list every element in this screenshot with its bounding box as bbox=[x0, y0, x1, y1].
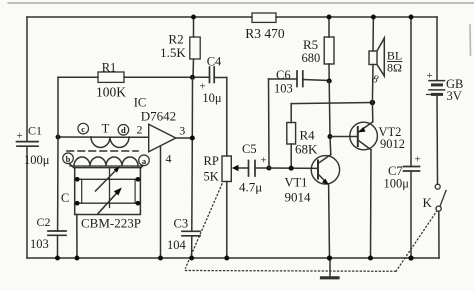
transistor VT2 bbox=[350, 122, 378, 150]
capacitor C2 bbox=[48, 230, 66, 232]
varcap arrow 1 bbox=[96, 169, 118, 192]
node junction BL/VT2 emitter bbox=[370, 100, 376, 106]
node junction BL top bbox=[371, 15, 376, 20]
svg-text:+: + bbox=[17, 130, 23, 142]
node junction output (R1/R2/C4) bbox=[190, 75, 195, 80]
svg-text:9014: 9014 bbox=[285, 190, 312, 205]
wire R5 junction down to VT2 base junction and VT1 collector bbox=[329, 81, 331, 155]
node junction R2 top rail bbox=[191, 15, 196, 20]
svg-text:VT1: VT1 bbox=[285, 176, 308, 190]
svg-text:+: + bbox=[261, 155, 267, 167]
varcap inner right edge bbox=[134, 179, 136, 203]
capacitor C5 bbox=[248, 161, 250, 177]
svg-text:K: K bbox=[423, 195, 433, 210]
svg-text:c: c bbox=[81, 124, 85, 134]
svg-text:104: 104 bbox=[167, 238, 187, 252]
resistor R4 bbox=[287, 123, 296, 145]
svg-text:a: a bbox=[142, 156, 147, 166]
svg-text:CBM-223P: CBM-223P bbox=[81, 216, 141, 231]
node junction VT2 base bbox=[327, 134, 332, 139]
svg-text:+: + bbox=[415, 154, 421, 166]
resistor R2 bbox=[193, 17, 195, 37]
terminal a bbox=[139, 155, 150, 166]
svg-text:C1: C1 bbox=[28, 124, 42, 138]
transformer T secondary winding bbox=[70, 165, 142, 167]
varcap stator line upper bbox=[75, 178, 141, 180]
wire R4 top to BL/VT2 emitter bbox=[291, 103, 372, 104]
svg-text:RP: RP bbox=[204, 154, 219, 168]
svg-text:100μ: 100μ bbox=[24, 153, 50, 167]
svg-text:3: 3 bbox=[179, 124, 185, 138]
svg-text:C3: C3 bbox=[174, 217, 189, 231]
svg-text:680: 680 bbox=[302, 51, 321, 65]
svg-text:10μ: 10μ bbox=[202, 91, 222, 105]
capacitor C4 bbox=[195, 76, 210, 78]
svg-text:100μ: 100μ bbox=[384, 177, 410, 191]
svg-text:C2: C2 bbox=[37, 215, 51, 229]
svg-text:3V: 3V bbox=[447, 89, 462, 103]
wire x58 column (R1 left down through C2) bbox=[57, 77, 59, 231]
svg-text:1.5K: 1.5K bbox=[160, 45, 186, 60]
svg-text:C6: C6 bbox=[276, 68, 291, 82]
wire C5 junction to VT1 base bbox=[269, 167, 318, 169]
wiper arrow RP bbox=[236, 167, 249, 169]
capacitor C7 bbox=[410, 17, 412, 167]
svg-text:C: C bbox=[61, 191, 69, 205]
terminal d bbox=[118, 125, 129, 136]
wire bottom rail bbox=[27, 257, 439, 259]
transformer T primary winding bbox=[91, 137, 129, 148]
mechanical link dotted RP to K bbox=[186, 184, 223, 268]
varcap arrow 2 bbox=[98, 191, 119, 214]
ground bbox=[329, 258, 331, 277]
wire output column (junction to pin3 to C3) bbox=[191, 77, 194, 231]
transformer T primary wire bbox=[58, 136, 149, 138]
resistor R1 bbox=[58, 76, 98, 78]
speaker BL bbox=[372, 17, 374, 51]
potentiometer RP bbox=[222, 156, 231, 182]
varcap rotor center line bbox=[109, 168, 111, 208]
op-amp U1 triangle bbox=[149, 124, 176, 151]
node junction R5 top bbox=[327, 15, 332, 20]
capacitor C6 bbox=[269, 78, 298, 80]
node bottom rail junctions bbox=[55, 256, 60, 261]
scan edge tick right bbox=[469, 25, 472, 55]
variable capacitor C (CBM-223P) box bbox=[75, 168, 141, 215]
wire left rail (top rail to C1) bbox=[26, 17, 28, 141]
svg-text:4.7μ: 4.7μ bbox=[239, 180, 262, 195]
wire box to bottom rail bbox=[76, 215, 78, 259]
node junction C5/C6 bbox=[266, 165, 271, 170]
terminal c bbox=[78, 123, 89, 134]
wire C4 to RP bbox=[226, 78, 228, 157]
node junction R4 bottom bbox=[289, 166, 294, 171]
wire b to tuning box bbox=[69, 164, 75, 169]
wire a to tuning box bbox=[140, 166, 143, 169]
svg-text:b: b bbox=[66, 154, 71, 164]
svg-text:100K: 100K bbox=[96, 85, 126, 100]
capacitor C1 bbox=[17, 141, 39, 143]
svg-text:R4: R4 bbox=[300, 128, 316, 143]
node junction primary left bbox=[56, 135, 61, 140]
wire top rail left of R3 bbox=[27, 16, 252, 18]
svg-text:2: 2 bbox=[137, 123, 143, 137]
svg-text:R3 470: R3 470 bbox=[245, 26, 285, 41]
svg-text:8Ω: 8Ω bbox=[387, 61, 402, 75]
capacitor C3 bbox=[182, 230, 200, 232]
node junction R5/C6 bbox=[327, 78, 332, 83]
node pin3 junction bbox=[190, 135, 195, 140]
svg-text:C4: C4 bbox=[207, 55, 222, 69]
wire top rail right of R3 bbox=[276, 16, 437, 18]
scan edge line top bbox=[8, 2, 474, 4]
svg-text:R5: R5 bbox=[303, 37, 318, 52]
svg-text:5K: 5K bbox=[204, 170, 219, 184]
svg-text:103: 103 bbox=[30, 237, 49, 251]
svg-text:103: 103 bbox=[274, 82, 293, 96]
svg-text:d: d bbox=[121, 125, 126, 135]
resistor R5 bbox=[328, 17, 330, 37]
varcap inner left edge bbox=[81, 179, 83, 203]
wire pin3 output bbox=[176, 137, 193, 139]
battery GB bbox=[436, 17, 438, 80]
varcap stator line lower bbox=[75, 202, 141, 204]
terminal b bbox=[63, 153, 74, 164]
ferrite core dashed bbox=[67, 150, 138, 152]
wire C5 junction up to C6 bbox=[268, 79, 271, 168]
transistor VT1 bbox=[311, 156, 339, 184]
svg-text:C5: C5 bbox=[242, 142, 257, 156]
svg-text:68K: 68K bbox=[295, 142, 318, 157]
switch K bbox=[435, 184, 440, 189]
svg-text:IC: IC bbox=[134, 96, 147, 110]
svg-text:4: 4 bbox=[166, 152, 172, 166]
svg-text:9012: 9012 bbox=[380, 137, 405, 151]
wire VT2 base bbox=[330, 136, 358, 138]
wire left rail (C1 to bottom rail) bbox=[26, 147, 28, 259]
resistor R3 bbox=[252, 13, 276, 22]
svg-text:+: + bbox=[427, 70, 433, 82]
svg-text:T: T bbox=[102, 122, 110, 136]
node junction C7 top bbox=[409, 15, 414, 20]
wire pin4 to ground rail bbox=[160, 146, 162, 258]
svg-text:R1: R1 bbox=[102, 61, 117, 75]
svg-text:D7642: D7642 bbox=[141, 109, 176, 124]
node box dots bbox=[75, 177, 80, 182]
